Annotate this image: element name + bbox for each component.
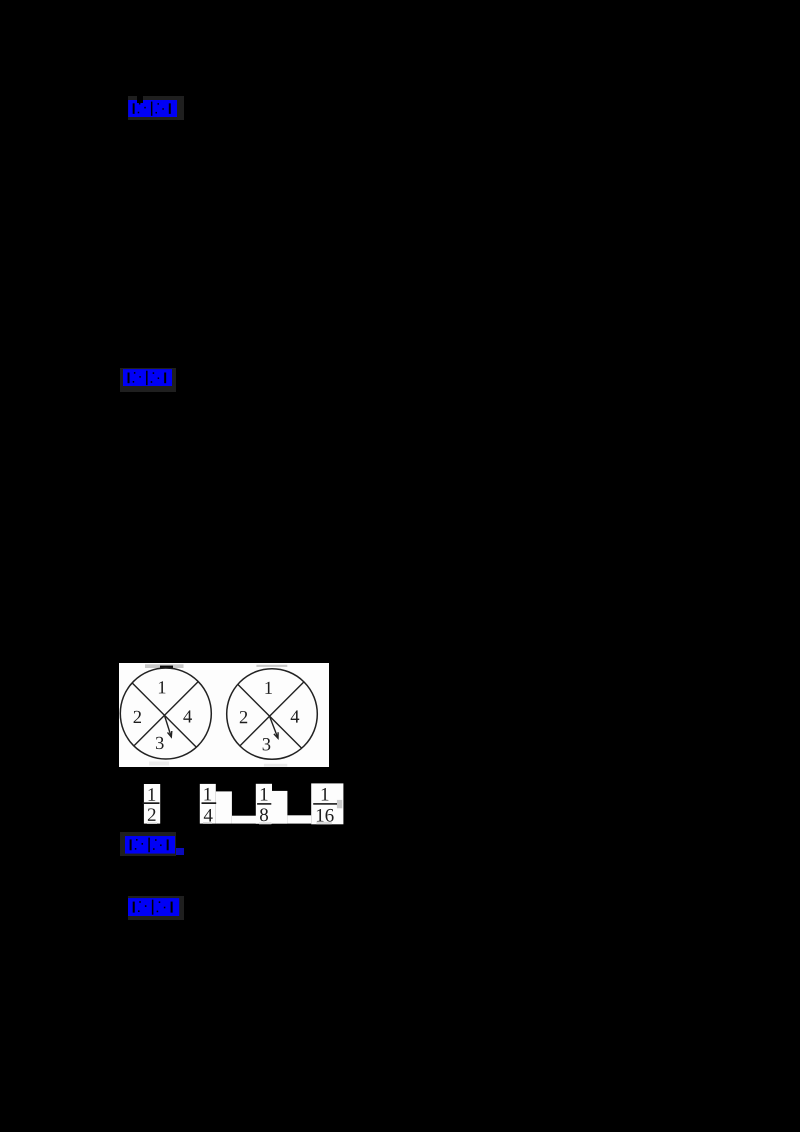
spinner 2 sector labels [240,682,299,751]
fraction bars [143,802,160,804]
light strips at box bottoms [147,822,157,824]
spinner 2 arrow [270,716,278,738]
gray handle square right of 1/16 [337,800,342,808]
spinner 2 diagonal line NE-SW [240,682,304,746]
highlight rect behind tag 2 [120,368,176,393]
spinner circle 2 [227,669,318,760]
highlight rect behind tag 3 [120,832,176,856]
fraction answer options row [138,780,353,828]
fraction 1/4 white box [200,784,216,824]
white strip blank before 1/8 [232,816,256,824]
faint smudge below spinner 1 [149,762,169,766]
spinner circle 1 [120,668,211,759]
white tab after 1/4 [216,791,232,823]
blue tag 1 answer [128,100,177,117]
fraction 1/16 white box [311,783,343,824]
spinner 1 arrow [165,716,172,738]
fraction 1/2 white box [144,784,160,824]
gray smudge strip above spinner 1 [145,664,184,668]
spinner 1 diagonal line NE-SW [134,682,198,746]
blue tag 2 [123,369,173,387]
black notch overlapping tag 1 [137,96,144,103]
gray smudge strip above spinner 2 [256,665,287,667]
black blob on smudge [160,666,173,669]
blue tag 3 analysis [125,836,175,854]
spinner 1 diagonal line NW-SE [132,683,196,747]
highlight rect behind answer tag 1 [128,96,184,120]
spinner 1 sector labels [134,681,192,749]
blue tag 4 [128,898,179,916]
dark blue period after tag 3 [176,848,184,856]
fraction digits [148,788,334,822]
faint smudge below spinner 2 [264,764,287,767]
white strip blank before 1/16 [287,815,311,823]
white picture box with two spinners [119,663,329,767]
white tab after 1/8 [272,791,287,824]
spinner 2 diagonal line NW-SE [238,684,302,748]
fraction 1/8 white box [256,784,272,824]
highlight rect behind tag 4 [128,896,184,920]
